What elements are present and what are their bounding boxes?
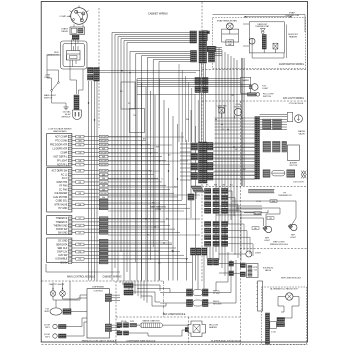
condenser motor component	[234, 108, 241, 115]
ref liner connector chain 2	[187, 300, 193, 307]
water valve box	[287, 112, 292, 121]
svg-text:DC GND: DC GND	[58, 241, 67, 243]
wires from connector J2 bending down left	[130, 52, 191, 281]
ref liner arrow connectors	[240, 263, 245, 268]
wire evap thermistor line	[244, 16, 292, 18]
svg-text:RETURN: RETURN	[213, 304, 222, 306]
wire bundle into bottom left section	[119, 281, 121, 284]
svg-text:MOTOR: MOTOR	[234, 106, 242, 108]
wire top to evaporator	[213, 15, 306, 32]
auger motor box	[287, 145, 299, 160]
svg-text:CTRL MODULE: CTRL MODULE	[289, 103, 304, 105]
door switch 2	[53, 334, 57, 338]
wire labels ref	[254, 212, 261, 215]
svg-text:AC L1: AC L1	[61, 173, 68, 176]
partition dashed line ref liner module bottom	[116, 316, 240, 318]
connector block P1 with pin rows	[47, 134, 72, 167]
svg-text:PTC CONN: PTC CONN	[55, 141, 67, 143]
svg-text:THERM FZ: THERM FZ	[56, 218, 68, 220]
svg-text:WTR VALVE: WTR VALVE	[54, 203, 67, 206]
svg-text:REF LINER MODULE: REF LINER MODULE	[281, 278, 302, 280]
svg-text:MAIN BOARD: MAIN BOARD	[53, 130, 67, 133]
condenser fan component	[219, 108, 225, 114]
svg-text:115 VAC: 115 VAC	[62, 111, 71, 114]
svg-text:FLIPPER MULLION MODULE: FLIPPER MULLION MODULE	[211, 341, 241, 343]
wires cluster to right strip	[213, 143, 255, 145]
connector J3 right blocks	[209, 47, 215, 63]
flipper inlet connector	[185, 328, 188, 332]
ice door blocks 2	[287, 170, 295, 177]
wire long run bottom left blocks to ground	[46, 264, 120, 272]
wires ref light	[216, 205, 262, 207]
svg-text:RELAY: RELAY	[61, 30, 68, 33]
connector cluster right blocks	[208, 143, 214, 151]
ice door row blocks	[263, 170, 270, 177]
wire bundle vertical to central connector top	[178, 64, 180, 142]
ice maker oval component	[50, 308, 62, 315]
svg-text:CONN: CONN	[155, 209, 162, 211]
partition dashed line cabinet wiring vertical	[201, 2, 203, 140]
svg-text:WATER TUBE HTR: WATER TUBE HTR	[143, 320, 161, 323]
svg-text:BK-WH: BK-WH	[100, 193, 107, 195]
svg-text:YL: YL	[161, 179, 163, 181]
cavity light bulb 2	[60, 291, 66, 297]
dashed vertical right modules	[240, 101, 242, 187]
svg-text:THERM FF: THERM FF	[56, 222, 68, 224]
alternate dc fan dashed enclosure	[262, 287, 307, 345]
svg-text:DISP HTR: DISP HTR	[57, 182, 68, 184]
flipper mullion heater body	[188, 321, 206, 337]
connector block P3 with pin rows	[47, 216, 72, 235]
wires cavity components to box	[53, 295, 87, 300]
wire right side vertical to defrost	[286, 25, 288, 59]
connector block P4 with pin rows	[47, 238, 72, 263]
ref liner light	[246, 251, 252, 257]
svg-text:MAIN HARNESS: MAIN HARNESS	[150, 206, 166, 209]
svg-text:ALTERNATE DC FAN MOTOR: ALTERNATE DC FAN MOTOR	[270, 288, 298, 291]
wires cluster down left	[88, 81, 90, 281]
svg-text:DC 5V: DC 5V	[61, 262, 68, 264]
svg-text:AC N: AC N	[62, 177, 68, 180]
svg-text:MKR: MKR	[45, 311, 50, 313]
wire compressor area to fuse	[47, 55, 61, 82]
connector row above ref chains	[191, 248, 196, 255]
evap fan run cap	[226, 40, 234, 46]
svg-text:FZC LIGHT WIRING: FZC LIGHT WIRING	[283, 98, 304, 100]
ref liner connector chain 1	[187, 289, 193, 296]
svg-text:DOOR SW: DOOR SW	[56, 229, 68, 231]
ref liner mid blocks	[229, 262, 234, 267]
svg-text:AUX SW: AUX SW	[58, 254, 68, 257]
dc fan blocks	[277, 318, 285, 322]
partition dashed line main control module bottom	[42, 280, 165, 282]
ref light bulb 1	[265, 226, 271, 232]
svg-text:REF LINER MODULE: REF LINER MODULE	[163, 314, 186, 316]
dispenser chain blocks	[117, 323, 122, 328]
ref liner tall connector	[258, 281, 263, 311]
svg-text:UI ENABLE: UI ENABLE	[55, 258, 67, 261]
wire ref light loop	[262, 201, 296, 225]
wire bundle cluster merge below	[191, 186, 204, 192]
partition dashed line cabinet wiring vertical lower	[201, 184, 203, 281]
svg-text:ICE MAKER: ICE MAKER	[55, 192, 68, 195]
svg-text:BK-WH: BK-WH	[100, 182, 107, 184]
wire rows right module top	[260, 114, 288, 116]
dc fan connector strip	[266, 313, 270, 344]
svg-text:NOT DEFR L: NOT DEFR L	[54, 157, 68, 159]
solenoid water valve box	[247, 264, 259, 278]
partition dashed line french door cavity right	[115, 281, 117, 345]
ref light bulb 2	[291, 224, 297, 230]
svg-text:START: START	[61, 28, 68, 31]
connector below cluster	[188, 194, 194, 200]
ice door capsule	[272, 170, 285, 176]
svg-text:0.5 A: 0.5 A	[271, 330, 276, 333]
ref connector blocks below clusters	[208, 259, 213, 266]
svg-text:MAIN CONTROL MODULE: MAIN CONTROL MODULE	[67, 276, 95, 279]
ff thermistor ribbon	[249, 189, 274, 193]
schematic border frame	[41, 2, 307, 343]
partition dashed line bottom modules	[42, 344, 308, 346]
water tube heater capsule	[140, 323, 163, 328]
svg-text:MOTOR: MOTOR	[290, 165, 298, 167]
evaporator fan dashed enclosure	[213, 18, 306, 69]
small connector top of J strip	[206, 31, 209, 34]
wires ref light feeds from center	[232, 200, 262, 202]
wire junction cluster below compressor	[88, 68, 94, 74]
dispenser lower blocks	[117, 331, 122, 335]
liner heater rect A	[121, 82, 135, 109]
connector J2 left blocks	[191, 51, 197, 63]
wires ref liner center	[160, 292, 187, 294]
start relay box	[70, 27, 85, 35]
svg-text:FRENCH DOOR CAVITY MODULE: FRENCH DOOR CAVITY MODULE	[82, 340, 117, 343]
wire stubs cavity lights up	[52, 283, 54, 288]
connector J1 left blocks	[190, 31, 197, 43]
svg-text:CUBE SOL: CUBE SOL	[56, 201, 68, 203]
defrost thermostat symbol	[260, 29, 265, 32]
partition dashed line evaporator module bottom	[202, 69, 308, 71]
svg-text:REF LIGHT: REF LIGHT	[273, 241, 285, 243]
connector cluster group lower rows	[205, 222, 211, 227]
defrost limiter box	[273, 43, 278, 49]
wire stubs left of central cluster	[180, 143, 191, 145]
svg-text:EVAPORATOR WIRING: EVAPORATOR WIRING	[279, 63, 304, 66]
french door control box	[87, 289, 110, 338]
fzc light switch	[248, 93, 257, 96]
light switch symbol	[52, 83, 58, 90]
wires vertical cabinet line gap	[199, 64, 201, 143]
svg-text:HV GND: HV GND	[58, 208, 67, 210]
svg-text:WTR: WTR	[130, 321, 135, 323]
defrost heater enclosure	[249, 22, 284, 53]
svg-text:BK-WH: BK-WH	[100, 136, 107, 138]
connector cluster left small blocks	[191, 143, 198, 150]
svg-text:FF FAN: FF FAN	[59, 185, 67, 188]
wire runs to ref modules	[216, 252, 228, 291]
connector bundle bottom left	[124, 283, 133, 288]
svg-text:FF LIGHT: FF LIGHT	[57, 161, 68, 163]
wires flipper	[187, 324, 188, 326]
svg-text:SWITCH: SWITCH	[263, 96, 272, 98]
svg-text:NOT FF L: NOT FF L	[57, 165, 68, 167]
wires fan to french door module	[133, 285, 160, 291]
cavity light bulb 1	[50, 291, 56, 297]
wire defrost box connections	[252, 44, 284, 58]
evaporator fan motor	[226, 23, 233, 30]
svg-text:VALVE: VALVE	[265, 269, 272, 272]
wires fanning from cluster groups	[228, 191, 232, 252]
wires from connector J1 bending down left	[112, 33, 190, 281]
run capacitor	[67, 51, 81, 61]
svg-text:EVAP: EVAP	[289, 11, 295, 14]
wire relay to loop	[73, 39, 75, 41]
svg-text:THERM GND: THERM GND	[53, 225, 67, 227]
wire bundle vertical right of cabinet line	[215, 46, 217, 240]
connector blocks row A right module	[263, 119, 271, 129]
svg-text:ALARM: ALARM	[242, 79, 249, 82]
dc fan motor	[286, 293, 293, 300]
svg-text:SER DATA: SER DATA	[56, 243, 68, 246]
connector blocks row B right module	[263, 141, 271, 152]
dispenser chain wire	[137, 324, 141, 326]
svg-text:ACT DEFR SW: ACT DEFR SW	[52, 170, 69, 173]
service cord plug	[73, 110, 82, 120]
svg-text:BK-WH: BK-WH	[100, 140, 107, 142]
svg-text:SW GND: SW GND	[58, 233, 68, 235]
fzc light bulb	[252, 84, 259, 91]
svg-text:BK-WH: BK-WH	[100, 160, 107, 162]
wire long runs right side down	[215, 240, 217, 252]
partition dashed line ref light module bottom	[240, 248, 308, 250]
wires out of connector J3 to right	[215, 47, 223, 49]
svg-text:EVAPORATOR FAN: EVAPORATOR FAN	[217, 19, 237, 22]
fzc connector pairs	[195, 78, 201, 85]
evap connector blob	[203, 31, 207, 41]
wire dc fan loop	[278, 297, 286, 307]
tall connector strip right	[255, 117, 257, 179]
dc fan small box	[270, 322, 277, 329]
earth ground symbol	[65, 103, 67, 107]
svg-text:WIRING MODULE: WIRING MODULE	[270, 244, 289, 246]
wire evap fan	[229, 30, 231, 34]
svg-text:CONTROL: CONTROL	[93, 291, 104, 293]
svg-text:NOT COMP: NOT COMP	[55, 137, 68, 139]
svg-text:LIGHT: LIGHT	[255, 253, 262, 255]
compressor motor	[71, 8, 88, 25]
fzc control box	[241, 77, 251, 93]
svg-text:YL: YL	[79, 164, 81, 166]
partition dashed line fzc light module bottom	[202, 100, 308, 102]
connector cluster group upper rows	[205, 189, 211, 194]
wire bundle horizontal extensions center mesh	[108, 136, 184, 138]
wires evap down to ref area	[241, 58, 243, 186]
evap fan circuit box	[222, 29, 239, 42]
connector strip center top	[199, 31, 203, 63]
svg-text:12 VDC: 12 VDC	[213, 293, 221, 295]
drain heater	[249, 38, 255, 44]
junction dots	[141, 144, 142, 145]
evap connector blob lower	[207, 46, 215, 52]
ice door solenoid	[301, 171, 306, 179]
service cord connector strip	[74, 95, 79, 110]
svg-text:HEATER: HEATER	[209, 326, 218, 329]
wires right strip feed horizontals	[215, 117, 255, 119]
svg-text:BK-WH: BK-WH	[100, 144, 107, 146]
svg-text:BK-WH: BK-WH	[100, 152, 107, 154]
svg-text:COMP: COMP	[60, 153, 67, 155]
connector block P2 with pin rows	[47, 168, 72, 213]
dashed vertical right modules lower	[240, 187, 242, 345]
defrost heater element	[262, 35, 266, 50]
svg-text:FRZ DOOR HTR: FRZ DOOR HTR	[50, 145, 68, 147]
wires chains vertical links	[192, 255, 194, 289]
svg-text:BK-WH: BK-WH	[100, 164, 107, 166]
wire dispenser bottom	[148, 333, 170, 336]
svg-text:COND FAN: COND FAN	[217, 104, 227, 107]
svg-text:THERMOSTAT: THERMOSTAT	[255, 25, 270, 28]
svg-text:THERMISTOR: THERMISTOR	[278, 195, 292, 197]
ice maker connector	[63, 309, 71, 314]
central connector strip	[199, 142, 203, 183]
dashed horizontal ref module top	[202, 186, 308, 188]
ac bus lines right of cluster	[99, 70, 200, 72]
svg-text:RD-1A: RD-1A	[121, 320, 127, 323]
french door box pins bottom	[105, 324, 111, 326]
svg-text:LIGHT: LIGHT	[264, 240, 271, 242]
svg-text:BK-WH: BK-WH	[254, 213, 261, 215]
partition dashed line flipper mullion left	[188, 317, 190, 345]
door switch 1	[53, 324, 57, 328]
svg-text:ICE DOOR: ICE DOOR	[293, 181, 304, 183]
compressor plug connector	[72, 35, 79, 39]
svg-text:DISPENSER WIRE MODULE: DISPENSER WIRE MODULE	[127, 341, 156, 343]
wire loop to service cord	[70, 69, 77, 94]
svg-text:MAIN LIGHT: MAIN LIGHT	[44, 94, 57, 97]
svg-text:CC FAN: CC FAN	[59, 188, 68, 191]
svg-text:DISPENSER: DISPENSER	[92, 287, 104, 289]
wires box to right	[112, 294, 121, 296]
svg-text:AUG MOTOR: AUG MOTOR	[53, 196, 67, 199]
partition dash-dot vertical cabinet-liner	[163, 281, 165, 317]
wires ref liner mid	[219, 263, 229, 265]
french door box pins top	[105, 294, 111, 296]
compressor rim ticks	[78, 6, 80, 8]
wires fzc light to left	[137, 78, 241, 80]
water valve motor	[295, 115, 303, 123]
svg-text:YL: YL	[222, 129, 224, 131]
svg-text:SERVICE: SERVICE	[61, 117, 71, 119]
svg-text:HEATER: HEATER	[289, 36, 298, 39]
svg-text:DISP 12V: DISP 12V	[57, 252, 68, 254]
svg-text:COMP: COMP	[59, 16, 66, 18]
svg-text:BK-WH: BK-WH	[100, 171, 107, 173]
svg-text:L1 DEFR HTR: L1 DEFR HTR	[52, 149, 67, 151]
wire bundle vertical center mesh	[136, 79, 138, 281]
svg-text:CABINET WIRING: CABINET WIRING	[148, 13, 168, 16]
partition dashed line top-left vertical	[98, 8, 100, 128]
svg-text:LIGHT: LIGHT	[262, 88, 269, 90]
wire loop around compressor capacitor	[61, 41, 88, 69]
svg-text:LIGHT: LIGHT	[290, 237, 297, 239]
svg-text:SER CLK: SER CLK	[57, 248, 67, 250]
liner heater rect B	[130, 109, 145, 133]
svg-text:VALVE: VALVE	[298, 132, 305, 135]
